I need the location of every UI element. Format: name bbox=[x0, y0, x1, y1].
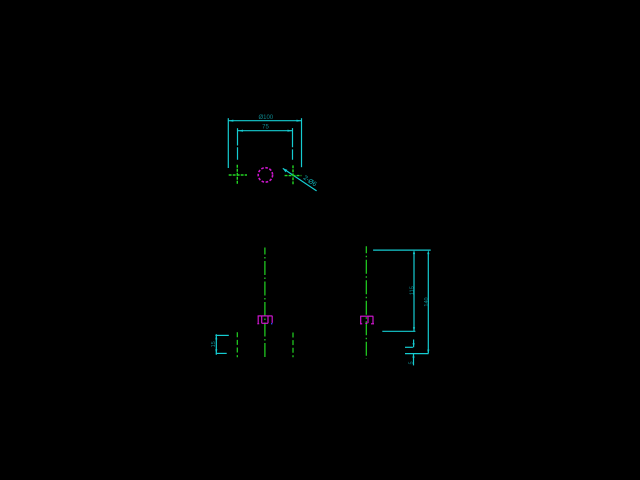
svg-text:15: 15 bbox=[211, 341, 217, 347]
svg-text:Ø100: Ø100 bbox=[258, 115, 273, 121]
svg-text:75: 75 bbox=[262, 125, 269, 131]
svg-text:115: 115 bbox=[409, 286, 415, 295]
svg-text:5: 5 bbox=[409, 361, 415, 364]
svg-text:140: 140 bbox=[424, 297, 430, 306]
